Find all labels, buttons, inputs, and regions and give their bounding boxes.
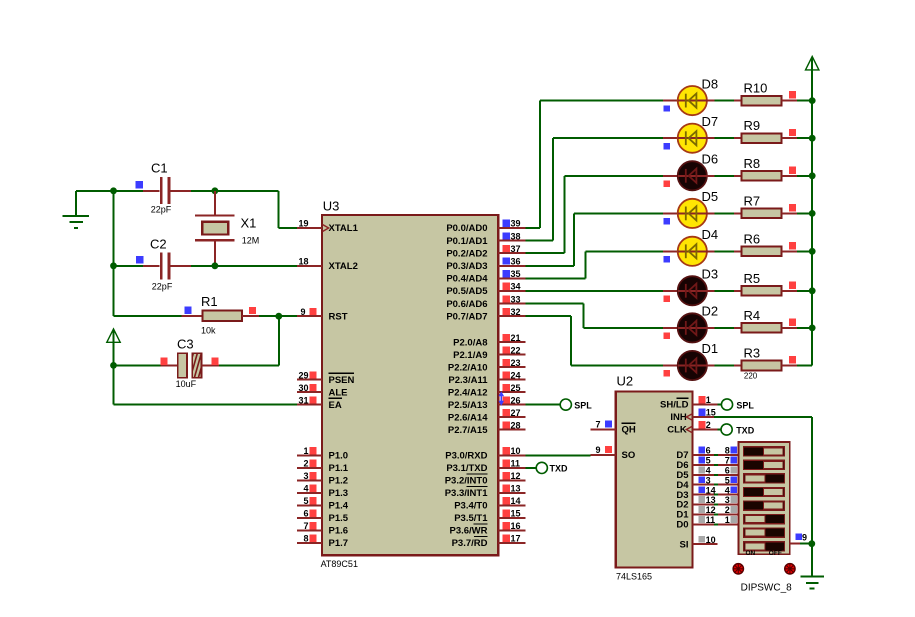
capacitor C2 bbox=[114, 252, 192, 279]
svg-text:R9: R9 bbox=[744, 118, 761, 133]
U3 pin 28 (P2.7/A15) bbox=[498, 420, 526, 430]
svg-text:P0.3/AD3: P0.3/AD3 bbox=[446, 261, 487, 272]
node junction C1/left rail bbox=[110, 187, 117, 194]
svg-text:30: 30 bbox=[298, 383, 308, 393]
svg-text:17: 17 bbox=[511, 534, 521, 544]
svg-text:R3: R3 bbox=[744, 346, 761, 361]
svg-text:P2.2/A10: P2.2/A10 bbox=[448, 362, 488, 373]
wire supply rail vertical bbox=[811, 58, 813, 366]
U2 pin 3 (D4) to DIP pin 5 bbox=[676, 475, 738, 491]
svg-text:14: 14 bbox=[706, 485, 716, 495]
svg-text:3: 3 bbox=[725, 495, 730, 505]
wire net SPL (U3 pin 26) bbox=[526, 404, 561, 406]
U3 pin 9 (RST) bbox=[297, 307, 348, 323]
wire D7 to R9 bbox=[707, 137, 735, 139]
svg-text:SI: SI bbox=[680, 539, 689, 550]
node C2 blue marker bbox=[136, 256, 143, 263]
svg-text:25: 25 bbox=[511, 383, 521, 393]
svg-text:7: 7 bbox=[595, 419, 600, 429]
svg-text:32: 32 bbox=[511, 307, 521, 317]
svg-text:D4: D4 bbox=[702, 227, 719, 242]
svg-text:D7: D7 bbox=[702, 114, 719, 129]
svg-text:6: 6 bbox=[725, 466, 730, 476]
overline INT0 bbox=[467, 473, 488, 475]
wire D2 to R4 bbox=[707, 327, 735, 329]
svg-text:220: 220 bbox=[744, 372, 758, 381]
DIP mounting hole left bbox=[733, 564, 743, 574]
svg-text:AT89C51: AT89C51 bbox=[321, 559, 358, 569]
node junction rail D4 row bbox=[809, 248, 816, 255]
resistor R10 bbox=[734, 96, 797, 106]
svg-text:P1.2: P1.2 bbox=[329, 476, 349, 487]
overline RD bbox=[474, 536, 488, 538]
wire R4 to supply rail bbox=[797, 327, 812, 329]
wire left rail vertical (C1 to C2 to R1) bbox=[113, 191, 115, 316]
wire R3 to supply rail bbox=[797, 365, 812, 367]
node P2.5 blue bus marker bbox=[499, 391, 505, 405]
svg-text:R7: R7 bbox=[744, 193, 761, 208]
svg-text:10: 10 bbox=[511, 446, 521, 456]
svg-text:P3.2/INT0: P3.2/INT0 bbox=[445, 476, 488, 487]
resistor R7 bbox=[734, 209, 797, 219]
wire net XTAL2 (C2 to U3 pin 18) bbox=[191, 265, 297, 267]
svg-text:P2.1/A9: P2.1/A9 bbox=[453, 350, 487, 361]
switch element 1 bbox=[744, 447, 785, 456]
wire net P0.6 to D2 bbox=[526, 304, 663, 328]
wire D3 to R5 bbox=[707, 290, 735, 292]
power terminal +V (top right) bbox=[806, 57, 819, 70]
svg-text:2: 2 bbox=[725, 505, 730, 515]
capacitor C1 bbox=[143, 177, 191, 204]
wire R8 to supply rail bbox=[797, 175, 812, 177]
LED D8 bbox=[663, 86, 707, 115]
overline WR bbox=[474, 523, 488, 525]
terminal SPL (left) bbox=[560, 399, 571, 410]
svg-text:P3.1/TXD: P3.1/TXD bbox=[446, 463, 487, 474]
U3 pin 39 (P0.0/AD0) bbox=[498, 219, 526, 229]
node R4 red marker bbox=[789, 319, 796, 326]
LED D2 bbox=[663, 313, 707, 342]
svg-text:6: 6 bbox=[303, 509, 308, 519]
svg-text:QH: QH bbox=[622, 425, 636, 436]
svg-text:P3.5/T1: P3.5/T1 bbox=[454, 513, 488, 524]
resistor R9 bbox=[734, 133, 797, 143]
svg-text:XTAL1: XTAL1 bbox=[329, 223, 359, 234]
wire net EA (power rail to U3 pin 31) bbox=[114, 365, 298, 404]
node D6 marker bbox=[664, 181, 670, 187]
node D3 marker bbox=[664, 296, 670, 302]
power terminal +V (left) bbox=[107, 329, 120, 366]
wire R6 to supply rail bbox=[797, 250, 812, 252]
wire CLK to TXD terminal bbox=[718, 429, 721, 431]
node D2 marker bbox=[664, 333, 670, 339]
resistor R1 bbox=[114, 311, 260, 322]
svg-text:P1.1: P1.1 bbox=[329, 463, 349, 474]
svg-text:7: 7 bbox=[303, 521, 308, 531]
wire R9 to supply rail bbox=[797, 137, 812, 139]
node junction rail D3 row bbox=[809, 287, 816, 294]
svg-text:P2.6/A14: P2.6/A14 bbox=[448, 412, 488, 423]
svg-text:5: 5 bbox=[725, 475, 730, 485]
svg-text:SO: SO bbox=[622, 450, 636, 461]
svg-text:22pF: 22pF bbox=[151, 204, 172, 214]
svg-text:6: 6 bbox=[706, 446, 711, 456]
svg-text:3: 3 bbox=[706, 475, 711, 485]
U3 pin 14 (P3.4/T0) bbox=[498, 496, 526, 506]
U3 pin 21 (P2.0/A8) bbox=[498, 333, 526, 343]
U3 pin 2 (P1.1) bbox=[297, 459, 349, 475]
svg-text:12: 12 bbox=[511, 471, 521, 481]
node junction rail D8 row bbox=[809, 97, 816, 104]
node R3 red marker bbox=[789, 356, 796, 363]
svg-text:19: 19 bbox=[298, 219, 308, 229]
U3 pin 22 (P2.1/A9) bbox=[498, 345, 526, 355]
U3 pin 38 (P0.1/AD1) bbox=[498, 231, 526, 241]
terminal TXD (right) bbox=[721, 424, 732, 435]
resistor R6 bbox=[734, 247, 797, 257]
svg-text:22: 22 bbox=[511, 345, 521, 355]
node R1 blue marker bbox=[185, 307, 192, 314]
node R8 red marker bbox=[789, 166, 796, 173]
svg-text:P2.0/A8: P2.0/A8 bbox=[453, 337, 487, 348]
overline INT1 bbox=[467, 485, 488, 487]
ground (top-left) bbox=[63, 191, 90, 228]
svg-text:21: 21 bbox=[511, 333, 521, 343]
LED D6 bbox=[663, 161, 707, 190]
svg-text:CLK: CLK bbox=[667, 425, 687, 436]
svg-text:R1: R1 bbox=[201, 294, 218, 309]
U3 pin 31 (EA) bbox=[297, 395, 342, 411]
svg-text:10uF: 10uF bbox=[176, 379, 197, 389]
U3 pin 23 (P2.2/A10) bbox=[498, 358, 526, 368]
switch element 8 bbox=[744, 542, 785, 551]
svg-text:38: 38 bbox=[511, 231, 521, 241]
svg-text:ALE: ALE bbox=[329, 387, 348, 398]
svg-text:R10: R10 bbox=[744, 81, 768, 96]
node D4 marker bbox=[664, 256, 670, 262]
U3 pin 25 (P2.4/A12) bbox=[498, 383, 526, 393]
svg-text:EA: EA bbox=[329, 400, 342, 411]
svg-text:P3.3/INT1: P3.3/INT1 bbox=[445, 488, 488, 499]
U3 pin 30 (ALE) bbox=[297, 383, 348, 399]
svg-text:24: 24 bbox=[511, 370, 521, 380]
wire net P0.7 to D1 bbox=[526, 316, 663, 365]
svg-text:10: 10 bbox=[706, 535, 716, 545]
svg-text:5: 5 bbox=[706, 456, 711, 466]
U3 pin 37 (P0.2/AD2) bbox=[498, 244, 526, 254]
U3 pin 33 (P0.6/AD6) bbox=[498, 294, 526, 304]
svg-text:P3.0/RXD: P3.0/RXD bbox=[445, 451, 487, 462]
svg-text:D0: D0 bbox=[676, 520, 688, 531]
svg-text:SPL: SPL bbox=[736, 400, 754, 410]
switch element 2 bbox=[744, 460, 785, 469]
wire R7 to supply rail bbox=[797, 212, 812, 214]
node junction X1 top bbox=[212, 187, 219, 194]
svg-text:P1.6: P1.6 bbox=[329, 526, 349, 537]
U3 pin 18 (XTAL2) bbox=[297, 257, 358, 273]
svg-text:23: 23 bbox=[511, 358, 521, 368]
U3 pin 29 (PSEN) bbox=[297, 370, 355, 386]
svg-text:INH: INH bbox=[670, 412, 687, 423]
U3 pin 4 (P1.3) bbox=[297, 484, 348, 500]
U3 pin 35 (P0.4/AD4) bbox=[498, 269, 526, 279]
U2 pin 1 (SH/LD) bbox=[660, 395, 718, 411]
capacitor C3 (electrolytic) bbox=[114, 351, 220, 379]
svg-text:33: 33 bbox=[511, 294, 521, 304]
U3 pin 19 (XTAL1) bbox=[297, 219, 359, 235]
wire D1 to R3 bbox=[707, 365, 735, 367]
wire D5 to R7 bbox=[707, 212, 735, 214]
node junction rail D7 row bbox=[809, 135, 816, 142]
svg-text:15: 15 bbox=[511, 509, 521, 519]
svg-text:SPL: SPL bbox=[574, 401, 592, 411]
svg-text:8: 8 bbox=[725, 446, 730, 456]
svg-text:P1.0: P1.0 bbox=[329, 451, 349, 462]
crystal X1 bbox=[195, 191, 235, 266]
svg-text:D2: D2 bbox=[702, 304, 719, 319]
U2 pin 5 (D6) to DIP pin 7 bbox=[676, 456, 738, 472]
svg-text:SH/LD: SH/LD bbox=[660, 400, 689, 411]
svg-text:74LS165: 74LS165 bbox=[616, 572, 652, 582]
node R10 red marker bbox=[789, 91, 796, 98]
U2 pin 10 (SI) bbox=[680, 535, 718, 551]
ground (bottom right) bbox=[800, 577, 824, 589]
svg-text:14: 14 bbox=[511, 496, 521, 506]
U3 pin 13 (P3.3/INT1) bbox=[498, 484, 526, 494]
svg-text:P1.3: P1.3 bbox=[329, 488, 349, 499]
svg-text:3: 3 bbox=[303, 471, 308, 481]
U2 pin 4 (D5) to DIP pin 6 bbox=[676, 466, 738, 482]
svg-text:36: 36 bbox=[511, 257, 521, 267]
svg-text:P2.5/A13: P2.5/A13 bbox=[448, 400, 488, 411]
U2 pin 2 (CLK) bbox=[667, 420, 717, 436]
node R1 red marker bbox=[249, 307, 256, 314]
resistor R3 bbox=[734, 361, 797, 371]
U3 pin 3 (P1.2) bbox=[297, 471, 348, 487]
svg-text:11: 11 bbox=[511, 459, 521, 469]
svg-text:D1: D1 bbox=[702, 341, 719, 356]
node R9 red marker bbox=[789, 129, 796, 136]
svg-text:34: 34 bbox=[511, 282, 521, 292]
svg-text:P0.4/AD4: P0.4/AD4 bbox=[446, 274, 488, 285]
svg-text:P1.4: P1.4 bbox=[329, 501, 349, 512]
U3 pin 1 (P1.0) bbox=[297, 446, 348, 462]
node D1 marker bbox=[664, 370, 670, 376]
U3 pin 8 (P1.7) bbox=[297, 534, 348, 550]
svg-text:5: 5 bbox=[303, 496, 308, 506]
svg-text:31: 31 bbox=[298, 395, 308, 405]
op-amp U3 AT89C51 microcontroller body bbox=[322, 215, 498, 555]
svg-text:1: 1 bbox=[706, 395, 711, 405]
svg-text:P1.5: P1.5 bbox=[329, 513, 349, 524]
resistor R5 bbox=[734, 286, 797, 296]
wire net TXD (U3 pin 11) bbox=[526, 467, 537, 469]
svg-text:4: 4 bbox=[725, 485, 730, 495]
svg-text:PSEN: PSEN bbox=[329, 375, 355, 386]
svg-text:R4: R4 bbox=[744, 308, 761, 323]
wire RST down to C3 bbox=[219, 316, 279, 365]
U3 pin 7 (P1.6) bbox=[297, 521, 348, 537]
svg-text:16: 16 bbox=[511, 521, 521, 531]
svg-text:P2.7/A15: P2.7/A15 bbox=[448, 425, 488, 436]
svg-text:1: 1 bbox=[303, 446, 308, 456]
resistor R8 bbox=[734, 171, 797, 181]
svg-text:R6: R6 bbox=[744, 231, 761, 246]
svg-text:XTAL2: XTAL2 bbox=[329, 261, 358, 272]
switch element 7 bbox=[744, 528, 785, 537]
svg-text:28: 28 bbox=[511, 420, 521, 430]
svg-text:9: 9 bbox=[802, 533, 807, 543]
U3 pin 24 (P2.3/A11) bbox=[498, 370, 526, 380]
svg-text:R8: R8 bbox=[744, 156, 761, 171]
LED D4 bbox=[663, 237, 707, 266]
terminal TXD (left) bbox=[536, 462, 547, 473]
LED D3 bbox=[663, 276, 707, 305]
node junction RST bbox=[275, 313, 282, 320]
wire net P0.3 to D5 bbox=[526, 213, 663, 265]
svg-text:35: 35 bbox=[511, 269, 521, 279]
node junction C3 left bbox=[110, 362, 117, 369]
LED D1 bbox=[663, 351, 707, 380]
svg-text:12M: 12M bbox=[242, 236, 260, 246]
U3 pin 17 (P3.7/RD) bbox=[498, 534, 526, 544]
svg-text:22pF: 22pF bbox=[152, 282, 173, 292]
svg-text:D5: D5 bbox=[702, 189, 719, 204]
U3 pin 15 (P3.5/T1) bbox=[498, 509, 526, 519]
node junction rail D6 row bbox=[809, 172, 816, 179]
svg-text:C1: C1 bbox=[151, 161, 168, 176]
node R7 red marker bbox=[789, 204, 796, 211]
U2 pin 15 (INH) bbox=[670, 408, 715, 424]
svg-text:TXD: TXD bbox=[736, 425, 755, 435]
svg-text:RST: RST bbox=[329, 311, 348, 322]
svg-text:P3.4/T0: P3.4/T0 bbox=[454, 501, 487, 512]
svg-text:C3: C3 bbox=[177, 337, 194, 352]
wire net XTAL1 (C1 to U3 pin 19) bbox=[191, 191, 297, 228]
svg-text:TXD: TXD bbox=[550, 464, 569, 474]
resistor R4 bbox=[734, 323, 797, 333]
switch element 6 bbox=[744, 515, 785, 524]
U3 pin 26 (P2.5/A13) bbox=[498, 395, 526, 405]
node D5 marker bbox=[664, 218, 670, 224]
svg-text:13: 13 bbox=[511, 484, 521, 494]
U3 pin 16 (P3.6/WR) bbox=[498, 521, 526, 531]
node C1 blue marker bbox=[135, 181, 142, 188]
wire R10 to supply rail bbox=[797, 100, 812, 102]
svg-text:C2: C2 bbox=[150, 236, 167, 251]
svg-text:29: 29 bbox=[298, 370, 308, 380]
U2 pin 6 (D7) to DIP pin 8 bbox=[676, 446, 738, 462]
svg-text:18: 18 bbox=[298, 257, 308, 267]
DIP mounting hole right bbox=[785, 564, 795, 574]
U3 pin 11 (P3.1/TXD) bbox=[498, 459, 526, 469]
svg-text:1: 1 bbox=[725, 515, 730, 525]
wire R5 to supply rail bbox=[797, 290, 812, 292]
node junction X1 bottom bbox=[212, 262, 219, 269]
svg-text:27: 27 bbox=[511, 408, 521, 418]
LED D5 bbox=[663, 199, 707, 228]
switch element 4 bbox=[744, 487, 785, 496]
node D7 marker bbox=[664, 143, 670, 149]
U3 pin 27 (P2.6/A14) bbox=[498, 408, 526, 418]
U2 pin 9 (SO) bbox=[591, 445, 636, 461]
wire SH/LD to SPL terminal bbox=[718, 404, 722, 406]
wire D4 to R6 bbox=[707, 250, 735, 252]
node C3 left red marker bbox=[160, 358, 167, 365]
svg-text:26: 26 bbox=[511, 395, 521, 405]
switch element 5 bbox=[744, 501, 785, 510]
U3 pin 32 (P0.7/AD7) bbox=[498, 307, 526, 317]
terminal SPL (right) bbox=[721, 399, 732, 410]
wire D6 to R8 bbox=[707, 175, 735, 177]
U3 pin 10 (P3.0/RXD) bbox=[498, 446, 526, 456]
svg-text:ON: ON bbox=[746, 550, 756, 557]
switch DIPSWC_8 body bbox=[739, 442, 790, 554]
svg-text:9: 9 bbox=[300, 307, 305, 317]
wire net RXD-SO (U3 pin 10 to U2 SO) bbox=[526, 454, 591, 456]
U3 pin 36 (P0.3/AD3) bbox=[498, 257, 526, 267]
wire net C1-left (ground to C1) bbox=[76, 190, 143, 192]
wire net P0.5 to D3 bbox=[526, 290, 663, 292]
U3 pin 5 (P1.4) bbox=[297, 496, 349, 512]
svg-text:12: 12 bbox=[706, 505, 716, 515]
node D8 marker bbox=[664, 105, 670, 111]
svg-text:U3: U3 bbox=[323, 199, 340, 214]
U2 pin 7 (QH) bbox=[591, 419, 636, 435]
wire net P0.2 to D6 bbox=[526, 176, 663, 253]
svg-text:13: 13 bbox=[706, 495, 716, 505]
U3 pin 34 (P0.5/AD5) bbox=[498, 282, 526, 292]
svg-text:4: 4 bbox=[706, 466, 711, 476]
svg-text:4: 4 bbox=[303, 484, 308, 494]
svg-text:37: 37 bbox=[511, 244, 521, 254]
U3 pin 12 (P3.2/INT0) bbox=[498, 471, 526, 481]
svg-text:8: 8 bbox=[303, 534, 308, 544]
node R5 red marker bbox=[789, 281, 796, 288]
svg-text:D8: D8 bbox=[702, 76, 719, 91]
node junction DIP common bbox=[808, 540, 815, 547]
U2 pin 11 (D0) to DIP pin 1 bbox=[676, 515, 738, 531]
node junction rail D5 row bbox=[809, 210, 816, 217]
op-amp U2 74LS165 shift register body bbox=[616, 392, 693, 568]
node R6 red marker bbox=[789, 242, 796, 249]
svg-text:R5: R5 bbox=[744, 271, 761, 286]
svg-text:P0.2/AD2: P0.2/AD2 bbox=[446, 248, 487, 259]
svg-text:U2: U2 bbox=[617, 373, 634, 388]
svg-text:2: 2 bbox=[706, 420, 711, 430]
wire net P0.1 to D7 bbox=[526, 138, 663, 240]
svg-text:10k: 10k bbox=[201, 325, 216, 335]
wire net INH to ground rail bbox=[693, 417, 812, 577]
svg-text:P3.6/WR: P3.6/WR bbox=[449, 526, 487, 537]
svg-text:D6: D6 bbox=[702, 152, 719, 167]
switch element 3 bbox=[744, 474, 785, 483]
node C3 right red marker bbox=[212, 358, 219, 365]
svg-text:2: 2 bbox=[303, 459, 308, 469]
U2 pin 14 (D3) to DIP pin 4 bbox=[676, 485, 738, 501]
svg-text:P0.5/AD5: P0.5/AD5 bbox=[446, 286, 488, 297]
svg-text:P0.7/AD7: P0.7/AD7 bbox=[446, 311, 487, 322]
svg-text:P2.3/A11: P2.3/A11 bbox=[448, 375, 488, 386]
svg-text:P3.7/RD: P3.7/RD bbox=[452, 538, 488, 549]
svg-text:D3: D3 bbox=[702, 267, 719, 282]
svg-text:P2.4/A12: P2.4/A12 bbox=[448, 387, 488, 398]
node junction C2 left bbox=[110, 262, 117, 269]
svg-text:7: 7 bbox=[725, 456, 730, 466]
svg-text:P1.7: P1.7 bbox=[329, 538, 349, 549]
wire net RST (R1 to U3 pin 9) bbox=[259, 315, 297, 317]
DIP pin 9 (common) bbox=[790, 533, 812, 544]
